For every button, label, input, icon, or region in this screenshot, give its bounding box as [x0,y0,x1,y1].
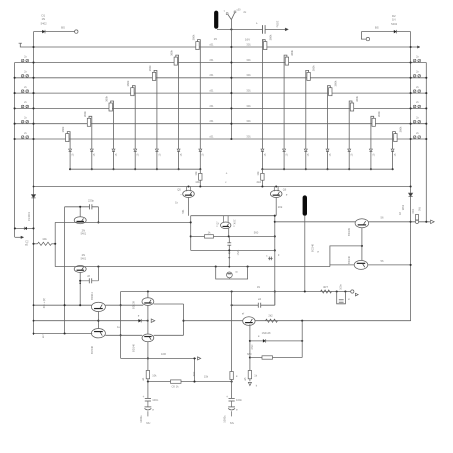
svg-text:15: 15 [214,37,218,41]
diode D3 in left rail [31,195,35,198]
transistor Q13 [147,292,149,298]
svg-text:360k: 360k [170,49,174,55]
svg-text:20k: 20k [278,205,283,209]
resistor R9 right bus to mid rail [261,169,263,173]
node at J1 output [230,28,232,30]
svg-text:+: + [226,395,228,399]
svg-text:10k: 10k [195,180,200,184]
diode DL3 [155,149,158,151]
resistor R15 [146,371,149,379]
bus row 4 [15,92,427,94]
diode DL2 [177,149,180,151]
svg-text:a1 !: a1 ! [42,334,45,338]
right short col [183,304,185,335]
centre col down [231,292,233,399]
fuse F2 [415,215,418,220]
svg-text:1000u: 1000u [139,415,143,423]
resistor R19 [248,371,251,379]
resistor R16 [171,380,182,383]
svg-text:360k: 360k [377,111,381,117]
left outer rail [14,63,16,238]
bus row 7 [15,138,427,140]
left col rail [120,292,122,359]
svg-text:1N: 1N [41,17,45,21]
svg-text:+: + [226,172,228,176]
resistor R11 [205,235,214,238]
svg-text:10k: 10k [42,237,47,241]
svg-text:x51: x51 [209,58,214,62]
svg-text:360k: 360k [61,126,65,132]
transistor Q1 [79,207,81,217]
svg-text:Q6: Q6 [283,188,287,192]
resistor RL7 [66,134,69,142]
resistor RR5 [350,103,353,111]
connector J1 (black bar) [214,11,218,29]
svg-text:1N: 1N [392,18,396,22]
diode DR2 [283,149,286,151]
Q11 to Q13 base wire [105,304,143,306]
svg-text:100n: 100n [340,284,343,290]
svg-text:360k: 360k [83,111,87,117]
transistor Q12 [91,329,105,338]
svg-text:BD139: BD139 [347,227,351,235]
svg-text:360k: 360k [191,34,195,40]
svg-text:301: 301 [246,119,251,123]
svg-text:5402: 5402 [41,22,47,26]
bus row 3 [15,77,427,79]
link L [330,246,362,267]
connector bar J2 [303,195,307,215]
svg-text:100n: 100n [152,398,158,402]
left vas column [190,216,192,251]
relay pair K5L [21,120,24,123]
svg-text:BS: BS [375,26,379,30]
svg-text:2SK: 2SK [232,220,236,225]
right vas column [274,216,276,306]
base line Q9 [275,221,355,223]
base line Q1 [55,221,191,223]
svg-text:301: 301 [246,58,251,62]
cap C10 [229,397,235,399]
svg-text:x51: x51 [209,119,214,123]
resistor RL6 [87,118,90,126]
left stair bus [70,168,200,170]
wire top centre [191,215,275,217]
resistor R18 [250,357,302,359]
svg-text:360k: 360k [399,126,403,132]
svg-text:x51: x51 [209,73,214,77]
svg-text:CK 1k: CK 1k [171,385,179,389]
svg-text:220p: 220p [88,199,94,203]
diode DR1 [261,149,264,151]
svg-text:+: + [142,395,144,399]
svg-text:BC546: BC546 [311,243,315,251]
right outer rail [425,63,427,222]
relay pair K2L [21,75,24,78]
svg-text:Q5: Q5 [177,188,181,192]
svg-text:56: 56 [381,259,384,263]
Q11-Q12 link [97,311,99,329]
line to LED [15,227,34,229]
Q2 emitter lead [79,272,81,305]
diode DR7 [391,149,394,151]
svg-text:BD140: BD140 [347,255,351,263]
V+ mid rail [34,186,411,188]
cap C9 [145,397,151,399]
vbe multiplier box [216,267,248,279]
left rail [33,32,35,335]
bus row 1 [20,43,419,47]
resistor R20 [230,372,233,380]
relay pair K6R [413,136,416,139]
resistor R8 left bus to mid rail [199,169,201,173]
low line [184,320,411,322]
svg-text:10k: 10k [152,374,157,378]
relay pair K2R [413,75,416,78]
resistor RL4 [131,88,134,96]
svg-text:15k: 15k [204,375,209,379]
svg-text:BD911: BD911 [90,292,94,300]
diode DL4 [134,149,137,151]
relay pair K1L [21,59,24,62]
svg-text:360k: 360k [126,80,130,86]
right rail [410,32,412,321]
svg-text:360k: 360k [333,80,337,86]
resistor RL2 [174,57,177,65]
sense drop [194,358,196,381]
diode DL7 [69,149,72,151]
terminal P2 [366,37,369,40]
resistor RR3 [307,72,310,80]
svg-text:1N4001: 1N4001 [27,211,31,221]
capacitor C20 in top wire [262,25,264,33]
tail vertical [54,222,56,266]
J2 wire down [304,216,306,292]
resistor RR2 [285,57,288,65]
svg-text:360k: 360k [105,95,109,101]
svg-text:360k: 360k [148,65,152,71]
diode DL1 [199,149,202,151]
diode DL6 [90,149,93,151]
JFET source lead [228,228,230,236]
transistor Q11 [91,302,105,311]
svg-text:100u: 100u [276,21,280,28]
svg-text:c30: c30 [237,9,242,12]
output line [411,221,430,223]
RC zobel [337,292,346,304]
link vertical [361,228,363,261]
svg-text:360k: 360k [290,49,294,55]
capacitor C7 [258,303,260,308]
main out node line [121,291,351,293]
lower line [191,249,275,251]
comp cap line [232,304,275,306]
svg-text:1N: 1N [257,286,260,289]
svg-text:360k: 360k [268,34,272,40]
svg-text:5401: 5401 [81,233,87,236]
svg-text:56: 56 [381,216,384,220]
cap C4 beside column [268,257,272,259]
inline resistor R17 [266,319,278,322]
input pair wire [97,207,99,223]
left mid rail [64,207,66,334]
Q5 tail [188,197,190,216]
line V- out [34,333,93,335]
resistor RR4 [329,88,332,96]
transistor Q14 [142,334,154,342]
svg-text:x51: x51 [209,104,214,108]
svg-text:301: 301 [246,42,251,46]
relay pair K4L [21,105,24,108]
diode D9 [250,340,302,342]
Q15 chain [249,324,251,381]
capacitor C1 [90,204,92,210]
resistor RR6 [372,118,375,126]
svg-text:x51: x51 [209,42,214,46]
Q14 emitter down [147,342,149,382]
resistor RL1 [196,42,199,50]
svg-text:4R7: 4R7 [323,285,328,289]
svg-text:0R1: 0R1 [411,208,415,213]
wire [330,264,354,266]
relay pair K5R [413,120,416,123]
diode D5 [24,227,27,230]
cap C5 on Q1 lower [97,267,99,281]
svg-text:BS: BS [61,26,65,30]
diode DR5 [348,149,351,151]
svg-text:x51: x51 [209,134,214,138]
terminal T5 [248,382,251,385]
relay pair K3R [413,90,416,93]
svg-text:301: 301 [246,89,251,93]
svg-text:1000u: 1000u [223,415,227,423]
bias chain [228,236,230,266]
svg-text:10R: 10R [161,352,166,356]
svg-text:30k + (R): 30k + (R) [43,298,46,309]
arrow out [15,236,21,238]
svg-text:301: 301 [246,104,251,108]
resistor RR7 [394,134,397,142]
JFET U2 [222,216,224,223]
svg-text:5402: 5402 [391,22,397,26]
svg-text:561: 561 [182,209,185,214]
bias line [55,266,330,268]
svg-text:301: 301 [246,134,251,138]
wire top cap line [65,206,99,208]
arrow terminal V+ sense [285,28,288,31]
svg-text:5401: 5401 [81,257,87,260]
svg-text:10k: 10k [256,171,260,176]
svg-text:W02: W02 [401,204,405,210]
transistor Q2 [74,266,86,273]
sense line [121,357,196,359]
Q13 base lead [154,303,184,305]
transistor Q10 [354,260,368,269]
diode D2 top-right [361,31,410,33]
svg-text:x51: x51 [209,89,214,93]
svg-text:560: 560 [254,231,259,235]
center column [230,29,232,139]
svg-text:BD139: BD139 [131,300,135,308]
svg-text:2k2: 2k2 [257,180,262,184]
Q14 right lead [154,334,184,336]
transistor Q15 [243,317,255,326]
resistor R10 tail [38,242,52,245]
relay pair K4R [413,105,416,108]
resistor RL3 [152,72,155,80]
terminal T4 [198,357,201,360]
transistor Q8 [227,272,233,278]
svg-text:16V: 16V [245,38,250,42]
terminal T3 [151,319,155,322]
diode D4 in right rail [408,193,412,196]
svg-text:+: + [256,22,258,26]
terminal P1 [75,30,78,33]
wire hook to terminal P2 [361,32,366,39]
wire [217,28,287,30]
svg-text:BC546: BC546 [90,345,94,353]
svg-text:1N41: 1N41 [237,249,240,255]
node diode D8 [98,320,148,322]
svg-text:BD140: BD140 [131,343,135,351]
diode DR3 [304,149,307,151]
svg-text:301: 301 [246,73,251,77]
bus row 2 [15,62,427,64]
q13-q14 link [147,305,149,334]
svg-text:680: 680 [247,352,252,356]
resistor RL5 [109,103,112,111]
svg-text:2k2: 2k2 [268,314,273,318]
bus row 5 [15,107,427,109]
svg-text:100n: 100n [236,398,242,402]
transistor Q9 [355,219,369,228]
svg-text:360k: 360k [355,95,359,101]
diodes D6 D7 [228,253,230,255]
resistor RR1 [264,42,267,50]
terminal out [351,290,354,293]
mid node line [34,320,99,322]
wire [274,292,276,306]
svg-text:10k: 10k [194,171,198,176]
mid line [191,235,275,237]
Q6 tail [275,197,277,216]
svg-text:360k: 360k [312,65,316,71]
relay pair K3L [21,90,24,93]
Q10 out [368,264,411,266]
svg-text:5W: 5W [419,206,422,210]
current mirror Q5 [183,190,195,197]
svg-text:Q7: Q7 [215,221,219,225]
Q14 base from rail [105,334,142,336]
right stair bus [262,168,392,170]
capacitor C3 [227,243,231,246]
diode DR4 [326,149,329,151]
svg-text:1N4148: 1N4148 [262,332,271,335]
diode DR6 [369,149,372,151]
svg-text:ef: ef [242,312,244,316]
relay pair K1R [413,59,416,62]
Y split wires [228,12,235,29]
svg-text:1u: 1u [117,325,120,329]
svg-text:2SC: 2SC [251,344,254,349]
line V+ out [34,304,92,306]
Q9 out [369,221,411,223]
diode D1 top-left [34,31,75,33]
right short col [301,321,303,358]
current mirror Q6 [270,190,282,197]
feedback line [148,381,232,383]
inline resistor R14 [321,290,332,293]
diode DL5 [112,149,115,151]
bus row 6 [15,123,427,125]
relay pair K6L [21,136,24,139]
